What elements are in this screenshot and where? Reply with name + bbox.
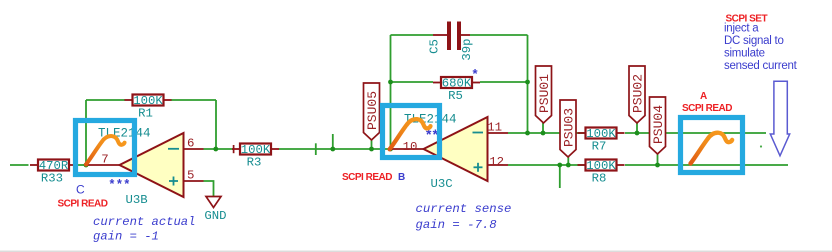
svg-text:39p: 39p (460, 38, 474, 60)
port PSU02 (629, 66, 645, 123)
svg-text:R7: R7 (592, 140, 607, 154)
wire: PSU05 stub (371, 139, 373, 149)
wire: stub down x=559.8 (559, 165, 561, 188)
svg-text:simulate: simulate (724, 48, 765, 60)
probe box B (middle) (383, 106, 440, 158)
wire: PSU04 stub (657, 153, 659, 165)
resistor R1 (100K) (125, 94, 172, 120)
svg-text:R3: R3 (247, 156, 262, 170)
wire: pin5 to GND corner (204, 181, 214, 196)
wire: tick on mid net x=315.8 (315, 143, 317, 155)
bottom window edge (0, 251, 832, 252)
wire: PSU02 stub (636, 122, 638, 133)
svg-text:C5: C5 (428, 39, 442, 54)
note: inject a DC signal (724, 23, 798, 73)
svg-text:SCPI READ: SCPI READ (342, 172, 392, 183)
svg-text:PSU02: PSU02 (630, 74, 645, 113)
svg-text:6: 6 (187, 137, 194, 151)
svg-text:SCPI READ: SCPI READ (58, 198, 108, 209)
probe box C (left) (76, 121, 135, 175)
svg-text:C: C (76, 183, 85, 197)
port PSU01 (536, 66, 552, 123)
wire: left output net horizontal y=165 (10, 164, 29, 166)
svg-text:current actual: current actual (93, 215, 195, 229)
wire: PSU01 stub (542, 122, 544, 133)
svg-text:5: 5 (187, 169, 194, 183)
wire: R5 branch left (391, 81, 434, 83)
wire: feedback vertical right x=216 (215, 100, 217, 149)
port PSU05 (364, 83, 380, 140)
wire: feedback vertical left x=86 (85, 100, 87, 165)
junction: U3C output node (388, 147, 393, 152)
wire: R1 right to vertical (171, 99, 216, 101)
svg-text:A: A (700, 91, 707, 102)
svg-text:PSU04: PSU04 (651, 105, 666, 144)
pin tick at R3 left (233, 145, 235, 153)
junction: stub down node (557, 163, 562, 168)
wire: pin6 net U3B to R3 (204, 148, 233, 150)
svg-text:sensed current: sensed current (724, 60, 798, 72)
probe wave A (691, 133, 733, 164)
svg-text:PSU03: PSU03 (561, 108, 576, 147)
port PSU04 (650, 97, 666, 154)
svg-text:R1: R1 (138, 107, 153, 121)
op-amp U3B (87, 133, 204, 197)
svg-text:GND: GND (204, 209, 226, 223)
arrow: inject signal (770, 81, 789, 156)
svg-text:DC signal to: DC signal to (724, 35, 784, 47)
svg-text:B: B (398, 172, 405, 183)
svg-text:R5: R5 (448, 89, 463, 103)
svg-text:gain = -7.8: gain = -7.8 (416, 218, 497, 232)
junction: PSU02 node (635, 131, 640, 136)
port PSU03 (560, 100, 576, 157)
wire: pin11 net U3C to R7 (508, 132, 586, 134)
junction: PSU04 node (655, 163, 660, 168)
svg-text:PSU05: PSU05 (365, 91, 380, 130)
junction: feedback/pin11 node (525, 131, 530, 136)
resistor R5 (680K) (433, 77, 480, 103)
junction: feedback right top node (525, 80, 530, 85)
wire: feedback top branch y=100 (86, 99, 125, 101)
wire: U3C feedback vertical right x=527.5 (527, 35, 529, 133)
resistor R33 (470R) (30, 159, 77, 185)
resistor R7 (100K) (578, 127, 625, 153)
junction: U3B output node (84, 163, 89, 168)
probe wave B (390, 119, 431, 149)
wire: C5 branch right y=35 (470, 34, 528, 36)
stray grid dot (760, 145, 762, 147)
svg-text:U3B: U3B (126, 193, 148, 207)
resistor R8 (100K) (578, 159, 625, 185)
probe wave C (86, 136, 125, 164)
svg-text:R8: R8 (592, 172, 607, 186)
resistor R3 (100K) (232, 143, 279, 169)
wire: R33 to probe junction (77, 164, 87, 166)
junction: feedback left top node (388, 80, 393, 85)
wire: C5 branch left y=35 (391, 34, 434, 36)
ground symbol GND (204, 197, 226, 224)
junction: PSU03 node (566, 163, 571, 168)
probe box A (right) (681, 118, 743, 173)
wire: PSU03 stub (567, 156, 569, 165)
svg-text:current sense: current sense (416, 202, 512, 216)
svg-text:10: 10 (403, 140, 418, 154)
wire: pin12 net U3C to R8 (508, 164, 586, 166)
wire: stub up from mid net x=332.8 (332, 134, 334, 149)
svg-text:7: 7 (101, 153, 108, 167)
wire: R5 branch right (480, 81, 528, 83)
wire: pin12 net R8 to end (625, 164, 788, 166)
junction: PSU05 node (369, 147, 374, 152)
junction: PSU01 node (541, 131, 546, 136)
junction: pin6/R1 node (213, 147, 218, 152)
wire: pin11 net R7 to end (625, 132, 766, 134)
wire: U3C feedback vertical left x=390.5 (390, 35, 392, 149)
svg-text:gain = -1: gain = -1 (93, 229, 159, 243)
junction: mid net stub node (330, 147, 335, 152)
wire: R3 to U3C output node y=149 (279, 148, 391, 150)
svg-text:***: *** (110, 177, 132, 191)
op-amp U3C (391, 117, 508, 181)
svg-text:R33: R33 (41, 172, 63, 186)
svg-text:U3C: U3C (431, 177, 453, 191)
capacitor C5 (39p) (428, 22, 475, 61)
svg-text:SCPI READ: SCPI READ (682, 103, 732, 114)
svg-text:PSU01: PSU01 (537, 74, 552, 113)
svg-text:12: 12 (489, 155, 504, 169)
svg-text:11: 11 (487, 121, 502, 135)
svg-text:inject a: inject a (724, 23, 759, 35)
svg-text:*: * (473, 66, 479, 81)
